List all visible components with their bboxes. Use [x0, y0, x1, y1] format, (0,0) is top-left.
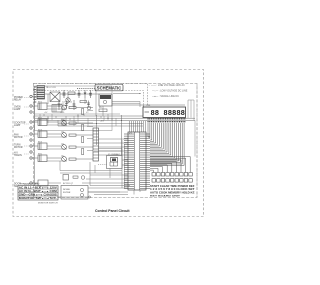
wire right edge drops: [188, 100, 194, 120]
wire ic top drops: [130, 121, 146, 132]
node inner right dashed border: [196, 84, 198, 198]
regulator IC2: [99, 94, 112, 106]
transistor Q2: [47, 121, 66, 126]
node label cooktop lamp: [14, 123, 26, 128]
wire ic side verticals: [122, 140, 125, 188]
capacitor C7: [87, 101, 90, 108]
display DS1: [143, 107, 186, 118]
node label door switch: [14, 184, 21, 189]
wire display anode: [112, 102, 185, 108]
node schematic title box: [95, 84, 123, 91]
node label power relay: [14, 97, 23, 102]
switch S1 door row: [32, 180, 61, 186]
diode bridge D1: [50, 92, 60, 102]
capacitor C6: [65, 101, 68, 109]
svg-text:+5V: +5V: [44, 112, 48, 114]
node sub box K1: [52, 105, 62, 113]
svg-text:LAMP: LAMP: [14, 124, 21, 127]
resistor R15: [69, 158, 93, 160]
svg-text:—●— : SIGNAL LINE DC: —●— : SIGNAL LINE DC: [152, 95, 179, 98]
relay RY2: [32, 119, 47, 126]
keypad switch row 2: [152, 179, 192, 183]
wire second dotted rail: [33, 91, 144, 108]
svg-text:FILTER: FILTER: [63, 192, 71, 194]
wire bottom runs: [58, 162, 128, 198]
transistor Q4: [47, 145, 66, 150]
wire ic left outputs: [82, 139, 128, 183]
node legend note 3: [152, 95, 179, 98]
node ic labels: [108, 105, 151, 156]
resistor R11: [69, 107, 93, 109]
capacitor C3: [89, 90, 92, 98]
relay RY4: [32, 143, 47, 150]
wire keypad nest: [150, 157, 190, 173]
svg-text:—○— : LOW VOLTAGE DC LINE: —○— : LOW VOLTAGE DC LINE: [152, 90, 188, 93]
svg-text:TERMINAL BOARD: TERMINAL BOARD: [20, 182, 40, 185]
wire osc rails: [98, 149, 122, 179]
node control board outline: [34, 84, 198, 198]
node label leader dashes: [24, 98, 29, 185]
relay RY5: [32, 155, 47, 162]
svg-text:TRANS: TRANS: [14, 154, 22, 157]
wire ribbon bundle A: [148, 123, 184, 166]
noise filter NF1: [61, 186, 88, 200]
wire relay row doubles: [47, 109, 93, 161]
svg-text:MONITOR SWITCH: MONITOR SWITCH: [38, 202, 58, 204]
capacitor C1: [63, 90, 66, 98]
node psu sub labels: [47, 87, 73, 103]
connector pin column CN1: [30, 95, 32, 184]
wire hv rail: [45, 93, 99, 95]
relay RY1: [32, 103, 47, 110]
resistor R1: [68, 92, 75, 94]
svg-text:NOISE: NOISE: [63, 189, 70, 191]
display pin label row 1: [148, 118, 187, 120]
microcontroller IC1 right pins: [140, 134, 150, 189]
svg-text:Control Panel Circuit: Control Panel Circuit: [95, 208, 130, 213]
transformer T1: [37, 86, 49, 100]
wire right rail drop: [194, 120, 196, 156]
svg-text:D1 C1 R1: D1 C1 R1: [47, 87, 57, 89]
transistor Q5: [47, 157, 66, 162]
capacitor C5 cluster: [58, 100, 76, 110]
node bus tiny labels: [44, 112, 105, 123]
node buzzer BZ1: [63, 175, 85, 186]
keypad switch row: [152, 173, 192, 177]
svg-text:LAMP: LAMP: [14, 108, 21, 111]
svg-text:88 88888: 88 88888: [151, 110, 186, 118]
resistor R21 vertical: [82, 109, 84, 155]
node label hv trans: [14, 153, 22, 158]
svg-text:MOTOR: MOTOR: [14, 137, 23, 139]
connector edge pins left: [34, 87, 37, 102]
display pin label row 2: [148, 121, 187, 123]
node legend note 1: [148, 84, 185, 87]
caption: [95, 208, 130, 213]
transistor Q3: [47, 133, 66, 138]
svg-text:KEY BOARD UNIT: KEY BOARD UNIT: [150, 195, 181, 198]
node label oven lamp: [14, 107, 21, 112]
svg-text:X1 CERAMIC: X1 CERAMIC: [108, 153, 121, 156]
node psu dotted row: [77, 88, 96, 90]
node bus junction ticks: [40, 114, 122, 126]
transistor Q6: [66, 98, 70, 102]
wire psu verticals: [48, 89, 103, 117]
capacitor C2: [78, 90, 81, 98]
microcontroller IC1 left pins: [124, 134, 134, 189]
node relay value labels: [38, 101, 65, 157]
node varistor row: [87, 106, 107, 111]
svg-text:MONITOR SW ●—● N.C.: MONITOR SW ●—● N.C.: [19, 197, 57, 200]
terminal table TB1: [18, 182, 58, 200]
svg-text:GND: GND: [60, 112, 65, 114]
connector CN2 vertical strip: [93, 128, 99, 161]
svg-text:RELAY: RELAY: [14, 99, 22, 102]
keypad labels block: [150, 185, 195, 198]
wire reg to display: [113, 93, 141, 94]
wire ic bottom runs: [88, 186, 140, 195]
wire left feed column: [32, 97, 36, 187]
node monitor text: [38, 202, 58, 204]
svg-text:VC: VC: [86, 112, 89, 114]
diode D2: [84, 90, 87, 98]
wire bus band: [35, 114, 195, 126]
node label turntable motor: [14, 145, 23, 150]
resistor R12: [69, 122, 93, 124]
resistor R13: [69, 134, 93, 136]
svg-text:→ —— : LINE VOLTAGE 120V AC: → —— : LINE VOLTAGE 120V AC: [148, 84, 185, 87]
wire mid verticals: [97, 115, 122, 155]
resistor R3: [80, 101, 87, 103]
svg-text:MOTOR: MOTOR: [14, 147, 23, 149]
resistor R14: [69, 146, 93, 148]
svg-text:FAN: FAN: [14, 134, 19, 137]
node label fan motor: [14, 134, 23, 140]
svg-text:AUTO COOK MEMORY HOLD KE: AUTO COOK MEMORY HOLD KE: [150, 192, 195, 195]
wire top dotted rail: [33, 84, 148, 107]
transistor Q1: [47, 105, 66, 110]
microcontroller IC1: [128, 132, 146, 190]
page border frame: [13, 70, 204, 217]
crystal X1: [107, 156, 129, 169]
relay RY3: [32, 131, 47, 138]
node power supply sub-board outline: [35, 86, 113, 131]
wire bottom rails: [60, 161, 122, 173]
svg-text:-30V: -30V: [100, 121, 105, 123]
node legend note 2: [152, 90, 188, 93]
svg-text:BZ R31 Q7: BZ R31 Q7: [63, 183, 74, 185]
